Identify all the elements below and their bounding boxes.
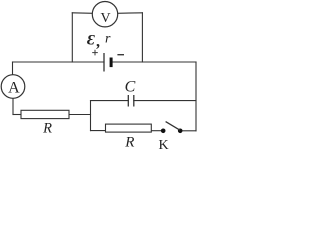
- svg-text:V: V: [100, 11, 110, 26]
- ammeter A: [1, 75, 25, 99]
- wire capacitor branch left segment: [91, 100, 129, 102]
- svg-text:R: R: [42, 120, 52, 136]
- svg-text:C: C: [125, 79, 136, 96]
- wire resistor R2 to switch left contact: [151, 130, 161, 132]
- wire top-left horizontal (battery wire left segment): [13, 61, 105, 63]
- battery plus sign: [92, 50, 98, 56]
- wire battery wire right segment: [112, 61, 196, 63]
- svg-text:R: R: [124, 134, 134, 150]
- wire switch branch left segment into resistor R2: [91, 130, 106, 132]
- wire ammeter bottom to lower-left corner: [12, 98, 14, 114]
- switch K lever (open): [166, 122, 180, 131]
- svg-text:A: A: [8, 80, 20, 97]
- switch K left contact: [161, 129, 166, 134]
- svg-text:r: r: [105, 31, 111, 46]
- switch K right contact: [178, 129, 183, 134]
- svg-text:K: K: [159, 138, 169, 150]
- resistor R1 (left): [21, 110, 69, 118]
- voltmeter V: [92, 2, 117, 27]
- svg-text:Ɛ: Ɛ: [87, 33, 95, 49]
- wire lower-left horizontal into resistor R1: [13, 114, 21, 116]
- wire switch right contact to right vertical: [182, 130, 196, 132]
- wire capacitor branch right segment: [134, 100, 196, 102]
- battery cell (EMF source): [104, 53, 113, 72]
- wire voltmeter loop top-left segment: [72, 12, 92, 15]
- capacitor C plates: [128, 95, 134, 107]
- wire left vertical from top wire down to ammeter: [12, 62, 14, 75]
- resistor R2 (in switch branch): [106, 124, 152, 132]
- svg-text:,: ,: [96, 34, 100, 51]
- wire resistor R1 to junction node: [69, 114, 91, 116]
- wire junction vertical (splits to capacitor and switch branches): [90, 101, 92, 131]
- wire voltmeter loop right vertical: [141, 13, 143, 62]
- label EMF script-E comma r: [87, 31, 111, 50]
- wire voltmeter loop top-right segment: [117, 12, 142, 15]
- wire right vertical bus: [195, 62, 197, 131]
- battery minus sign: [117, 54, 124, 56]
- wire voltmeter loop left vertical: [71, 13, 73, 62]
